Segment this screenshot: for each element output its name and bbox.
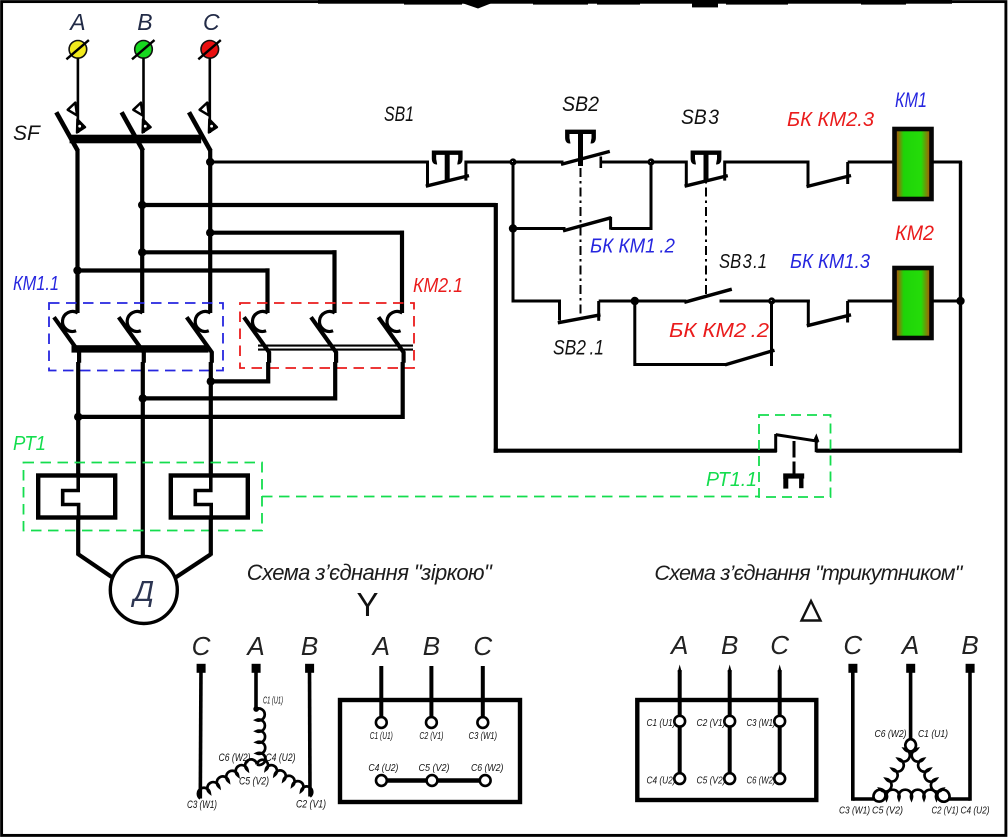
svg-text:C: C: [203, 9, 220, 35]
svg-text:КМ1: КМ1: [895, 89, 927, 112]
svg-text:SB2: SB2: [562, 93, 599, 116]
svg-text:SB 3: SB 3: [681, 106, 719, 129]
wire to coil KM2: [848, 300, 895, 303]
svg-text:C1 (U1): C1 (U1): [918, 728, 948, 740]
wire B to motor: [141, 398, 145, 557]
svg-text:C4 (U2): C4 (U2): [368, 762, 398, 774]
svg-text:C: C: [843, 630, 862, 660]
thermal relay PT1 box: [24, 463, 263, 531]
KM2.1 pole 3: [387, 311, 402, 331]
aux contact BK KM1.2: [513, 227, 566, 230]
svg-text:Схема з’єднання "трикутником": Схема з’єднання "трикутником": [654, 560, 963, 585]
wire heater A to motor: [76, 516, 80, 556]
coil KM1: [895, 129, 932, 199]
delta symbol: [802, 601, 821, 621]
svg-text:B: B: [721, 630, 738, 660]
svg-text:Д: Д: [131, 576, 154, 608]
node rung3 right: [768, 297, 775, 304]
SB2 actuator: [567, 132, 593, 142]
breaker SF bar: [70, 135, 202, 144]
breaker SF blade B: [122, 112, 143, 150]
svg-text:A: A: [900, 630, 919, 660]
wire phase C vertical: [208, 149, 212, 313]
delta terminal box: [637, 700, 816, 800]
svg-text:C6 (W2): C6 (W2): [875, 728, 907, 740]
star box bottom terminal: [427, 775, 438, 786]
svg-text:C2 (V1): C2 (V1): [697, 717, 726, 729]
star box bottom terminal: [480, 775, 491, 786]
svg-text:A: A: [669, 630, 688, 660]
aux contact BK KM2.3: [807, 161, 810, 187]
svg-text:БК КМ1 .2: БК КМ1 .2: [590, 236, 675, 258]
KM2.1 pole 1: [252, 311, 267, 331]
star winding coil to C3: [198, 759, 257, 798]
svg-text:SB2 .1: SB2 .1: [553, 337, 604, 360]
wire KM2.1 pole3 out: [401, 362, 405, 419]
wire return vertical right: [959, 162, 962, 453]
wire coil KM1 out: [932, 161, 963, 164]
svg-text:C6 (W2): C6 (W2): [471, 762, 504, 774]
wire KM1.1 pole1 out: [76, 362, 80, 419]
svg-text:B: B: [301, 631, 318, 661]
svg-text:C1 (U1): C1 (U1): [370, 730, 393, 742]
svg-text:SB 3 .1: SB 3 .1: [719, 251, 767, 273]
mechanical link SB2-SB2.1: [580, 168, 582, 317]
PT1 heater A: [38, 476, 115, 518]
breaker SF release symbol B: [133, 103, 142, 116]
phase B lamp: [135, 41, 153, 59]
svg-text:C3 (W1): C3 (W1): [469, 730, 498, 742]
svg-text:C4 (U2): C4 (U2): [266, 752, 296, 764]
svg-text:C2 (V1): C2 (V1): [419, 730, 443, 742]
wire phase A drop: [77, 58, 80, 133]
pushbutton contact SB2.1: [558, 301, 561, 321]
node merge B: [143, 396, 335, 400]
svg-text:B: B: [137, 9, 152, 35]
delta winding coil right side: [905, 739, 949, 802]
svg-text:C3 (W1): C3 (W1): [747, 717, 776, 729]
wire rung2 up: [650, 162, 653, 229]
svg-text:SF: SF: [13, 122, 41, 145]
wire coil KM2 out: [932, 300, 961, 303]
bypass contact BK KM2.2: [633, 301, 636, 366]
wire phase B vertical: [140, 149, 144, 313]
wire SB1 to node: [466, 161, 515, 164]
svg-text:B: B: [423, 631, 440, 661]
svg-text:C6 (W2): C6 (W2): [219, 752, 251, 764]
svg-text:БК КМ1.3: БК КМ1.3: [790, 251, 870, 273]
svg-text:C5 (V2): C5 (V2): [872, 805, 903, 817]
star box shorting bar: [381, 778, 483, 783]
svg-text:Y: Y: [356, 586, 378, 623]
svg-text:C4 (U2): C4 (U2): [647, 775, 676, 787]
svg-text:C5 (V2): C5 (V2): [239, 776, 269, 788]
KM1.1 tie bar: [72, 345, 209, 352]
pushbutton SB1: [426, 161, 429, 187]
pushbutton SB2 contact: [513, 161, 564, 164]
node B crossover: [138, 248, 146, 256]
wire phase B drop: [142, 58, 145, 133]
coil KM2: [895, 268, 932, 338]
svg-text:C2 (V1): C2 (V1): [296, 799, 326, 811]
wire to coil KM1: [848, 161, 895, 164]
breaker SF blade C: [189, 112, 210, 150]
svg-text:КМ2: КМ2: [895, 222, 934, 245]
wire C to heater: [209, 381, 213, 477]
svg-text:C1 (U1): C1 (U1): [647, 717, 676, 729]
node merge A: [78, 415, 403, 419]
wire control supply B: [142, 203, 496, 207]
node C to control rung: [206, 158, 214, 166]
dashed link PT1 to PT1.1: [262, 496, 759, 498]
contactor KM2.1 box: [240, 303, 414, 368]
svg-text:C2 (V1): C2 (V1): [932, 805, 959, 817]
KM2.1 tie bar: [258, 345, 413, 347]
node rung1 left: [509, 158, 516, 165]
node rung1 right: [647, 158, 654, 165]
node merge C: [211, 379, 268, 383]
wire supply B down: [494, 203, 498, 453]
PT1 heater C: [171, 476, 248, 518]
svg-text:БК КМ2.3: БК КМ2.3: [787, 109, 874, 131]
svg-text:B: B: [961, 630, 978, 660]
wire KM2.1 pole1 out: [266, 362, 270, 384]
breaker SF release symbol A: [68, 103, 77, 116]
phase C lamp: [201, 41, 219, 59]
wire A to heater: [76, 417, 80, 477]
star winding coil A: [253, 706, 259, 712]
KM1.1 pole 2: [127, 311, 142, 331]
KM1.1 pole 3: [195, 311, 210, 331]
breaker SF release symbol C: [200, 103, 209, 116]
star winding coil to C2: [257, 760, 312, 797]
wire rung3 left: [513, 300, 561, 303]
svg-text:C: C: [192, 631, 211, 661]
svg-text:C: C: [473, 631, 492, 661]
wire C to KM2.1 pole3: [210, 231, 404, 235]
KM1.1 pole 1: [62, 311, 77, 331]
svg-text:C4 (U2): C4 (U2): [961, 805, 990, 817]
node C crossover: [206, 229, 214, 237]
svg-text:C5 (V2): C5 (V2): [419, 762, 450, 774]
svg-text:КМ2.1: КМ2.1: [413, 275, 463, 297]
svg-text:A: A: [371, 631, 390, 661]
wire KM2.1 pole2 out: [333, 362, 337, 401]
svg-text:A: A: [68, 9, 85, 35]
thermal contact PT1.1: [774, 434, 777, 452]
node rung2: [509, 224, 517, 232]
cut-off title text remnant at top: [318, 0, 952, 4]
svg-text:C3 (W1): C3 (W1): [187, 799, 217, 811]
svg-text:РТ1.1: РТ1.1: [706, 469, 757, 491]
star terminal box: [340, 700, 520, 802]
wire rung1 drop: [512, 162, 515, 303]
star box bottom terminal: [376, 775, 387, 786]
breaker SF blade A: [56, 112, 77, 150]
KM2.1 pole 2: [319, 311, 334, 331]
node A crossover: [73, 266, 81, 274]
svg-text:БК КМ2 .2: БК КМ2 .2: [669, 320, 769, 342]
svg-text:C5 (V2): C5 (V2): [697, 775, 726, 787]
node coil KM2 out: [956, 297, 964, 305]
svg-text:C6 (W2): C6 (W2): [747, 775, 776, 787]
delta winding base wire: [853, 797, 875, 801]
mechanical link SB3-SB3.1: [705, 168, 707, 294]
aux contact BK KM1.3: [772, 300, 810, 303]
thermal relay PT1.1 box: [759, 415, 831, 497]
svg-text:РТ1: РТ1: [13, 433, 46, 455]
pushbutton SB3: [651, 161, 686, 164]
wire SB3 to BK KM2.3: [725, 161, 810, 164]
contactor KM1.1 box: [49, 303, 223, 371]
pushbutton contact SB3.1: [635, 300, 687, 303]
phase A lamp: [69, 41, 87, 59]
wire B to KM2.1 pole2: [142, 250, 336, 254]
wire heater C to motor: [209, 516, 213, 556]
svg-text:SB1: SB1: [384, 103, 414, 126]
node B control supply: [138, 201, 146, 209]
delta winding coil left side: [874, 739, 916, 802]
motor M: [110, 557, 177, 624]
wire KM1.1 pole3 out: [209, 362, 213, 384]
wire A to KM2.1 pole1: [78, 268, 270, 272]
PT1.1 release stem: [793, 441, 796, 458]
svg-text:C: C: [770, 630, 789, 660]
svg-text:Схема з’єднання "зіркою": Схема з’єднання "зіркою": [247, 560, 493, 585]
wire control feed C: [210, 161, 427, 164]
wire KM1.1 pole2 out: [141, 362, 145, 401]
svg-text:A: A: [245, 631, 264, 661]
wire phase C drop: [209, 58, 212, 133]
svg-text:C3 (W1): C3 (W1): [839, 805, 870, 817]
delta winding coil base: [874, 790, 950, 799]
wire phase A vertical: [75, 149, 79, 313]
node rung3 left: [631, 297, 639, 305]
svg-text:КМ1.1: КМ1.1: [13, 273, 59, 295]
svg-text:C1 (U1): C1 (U1): [263, 696, 283, 707]
